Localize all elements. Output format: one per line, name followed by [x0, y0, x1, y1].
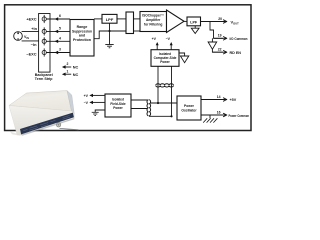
- svg-text:Amplifier: Amplifier: [146, 18, 161, 22]
- svg-text:Term Strip: Term Strip: [35, 77, 54, 81]
- field power ground: [95, 110, 105, 112]
- svg-text:4: 4: [59, 37, 61, 41]
- -V arrow up: [170, 45, 172, 50]
- svg-text:16: 16: [217, 111, 221, 115]
- terminal 3 (-In): [42, 37, 46, 45]
- wire T2 bottom rail: [149, 115, 172, 117]
- wire barrier to amplifier lo: [134, 30, 141, 32]
- wire T1 to power oscillator: [150, 102, 177, 104]
- pin 22 arrow: [212, 51, 226, 54]
- wire range block low to isolation element: [94, 31, 126, 39]
- svg-text:I/O Common: I/O Common: [230, 37, 249, 41]
- LPF block: [102, 14, 117, 23]
- svg-text:VOUT: VOUT: [231, 20, 240, 26]
- wire amp to output LPF: [184, 20, 187, 22]
- svg-text:Power: Power: [113, 106, 123, 110]
- io common arrow right of power block: [179, 53, 185, 56]
- +V arrow up: [156, 45, 158, 50]
- svg-text:+In: +In: [31, 26, 37, 31]
- transformer primary wire right: [171, 66, 173, 116]
- wire field power to T2 mid: [131, 108, 148, 110]
- wire LPF to ground: [109, 23, 111, 44]
- -V field arrow: [93, 101, 105, 103]
- svg-text:1: 1: [67, 69, 69, 73]
- svg-text:Power: Power: [160, 60, 170, 64]
- wire terminal 4 to range block: [46, 52, 70, 54]
- output LPF block: [187, 17, 201, 26]
- svg-text:6: 6: [59, 14, 61, 18]
- svg-text:−V: −V: [166, 37, 171, 41]
- source VIN circle: [14, 32, 23, 41]
- module photo front face: [9, 106, 74, 135]
- wire I/O common: [214, 37, 224, 39]
- pin 16 arrow: [201, 113, 227, 116]
- wire -In from source to terminal 3: [22, 40, 42, 42]
- node junction: [157, 102, 159, 104]
- svg-text:20: 20: [218, 17, 222, 21]
- terminal 2 (+In): [42, 27, 46, 35]
- wire output bus down: [210, 22, 214, 39]
- svg-text:+5V: +5V: [230, 98, 237, 102]
- +V field arrow: [93, 94, 105, 96]
- io common arrow on bus: [211, 38, 213, 42]
- isolated field-side power block: [105, 94, 131, 117]
- svg-text:and: and: [79, 34, 85, 38]
- label strip markings: [23, 116, 70, 131]
- pin 19 arrow: [214, 37, 227, 40]
- wire +In from source to terminal 2: [22, 30, 42, 32]
- pin 14 arrow: [201, 98, 227, 101]
- svg-text:+V: +V: [84, 94, 89, 98]
- power oscillator block: [177, 96, 201, 120]
- svg-text:+EXC: +EXC: [26, 16, 36, 21]
- svg-text:VIN: VIN: [24, 35, 29, 40]
- module photo right side face: [67, 91, 74, 115]
- wire field power to T2 top: [131, 99, 148, 101]
- ground field common: [105, 45, 113, 48]
- svg-text:2: 2: [67, 62, 69, 66]
- svg-text:14: 14: [217, 95, 221, 99]
- node junction: [170, 115, 172, 117]
- isolation barrier element: [126, 12, 134, 34]
- module front label strip: [20, 113, 74, 135]
- svg-text:ISOChopper™: ISOChopper™: [142, 14, 164, 18]
- pin arrow 4: [55, 40, 59, 43]
- amplifier triangle: [167, 10, 185, 33]
- svg-text:for Filtering: for Filtering: [144, 22, 162, 26]
- svg-text:Suppression: Suppression: [72, 29, 92, 33]
- border frame: [5, 5, 251, 131]
- backpanel terminal strip box: [39, 14, 50, 73]
- svg-text:RD EN: RD EN: [230, 51, 242, 55]
- module connector bezel: [56, 123, 60, 127]
- svg-text:22: 22: [218, 48, 222, 52]
- svg-text:Oscillator: Oscillator: [181, 108, 197, 112]
- wire range block to LPF: [94, 18, 102, 20]
- svg-text:+V: +V: [152, 37, 157, 41]
- ISOChopper amplifier block U2: [140, 12, 167, 32]
- svg-text:NC: NC: [73, 66, 79, 70]
- NC stub pin 2: [65, 66, 71, 68]
- svg-text:3: 3: [59, 48, 61, 52]
- pin arrow 6: [55, 17, 59, 20]
- io common arrow below output LPF: [194, 26, 196, 28]
- wire +5V: [201, 99, 223, 101]
- wire terminal 2 to range block: [46, 30, 70, 32]
- wire RD EN: [212, 49, 223, 52]
- svg-text:19: 19: [218, 34, 222, 38]
- svg-text:LPF: LPF: [190, 20, 198, 24]
- pin arrow 3: [55, 51, 59, 54]
- module shadow line right: [60, 128, 79, 129]
- wire Vout: [201, 21, 224, 23]
- svg-text:5: 5: [59, 27, 61, 31]
- NC stub pin 1: [65, 73, 71, 75]
- svg-text:−EXC: −EXC: [26, 52, 36, 57]
- terminal 4 (-EXC): [42, 48, 46, 56]
- svg-text:−In: −In: [31, 42, 37, 47]
- svg-text:Power Common: Power Common: [229, 114, 250, 118]
- transformer T2 winding vertical: [147, 100, 151, 116]
- isolated computer-side power block: [151, 50, 179, 67]
- svg-text:LPF: LPF: [106, 17, 114, 22]
- pin arrow 5: [55, 30, 59, 33]
- terminal 1 (+EXC): [42, 15, 46, 23]
- svg-text:Range: Range: [77, 25, 88, 29]
- wire terminal 3 to range block: [46, 40, 70, 42]
- wire power common: [201, 114, 223, 116]
- module shadow bottom: [21, 118, 74, 136]
- wire LPF to isolation element: [117, 18, 126, 20]
- svg-text:Protection: Protection: [73, 38, 91, 42]
- svg-text:NC: NC: [73, 73, 79, 77]
- chassis ground power common: [209, 115, 211, 118]
- wire barrier to amplifier hi: [134, 18, 141, 20]
- svg-text:−V: −V: [84, 101, 89, 105]
- wire terminal 1 to range block: [46, 18, 70, 20]
- transformer T1 winding: [156, 84, 174, 87]
- transformer primary wire left: [157, 66, 159, 103]
- pin 20 arrow: [204, 20, 227, 23]
- node junction at ground rail: [108, 30, 110, 32]
- range suppression block U1: [70, 20, 94, 57]
